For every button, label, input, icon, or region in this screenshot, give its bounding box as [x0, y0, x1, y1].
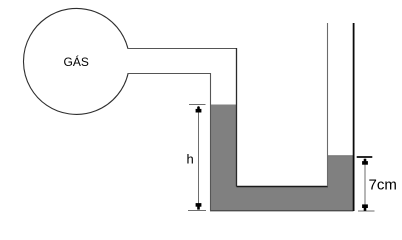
svg-text:7cm: 7cm: [369, 177, 397, 194]
svg-text:h: h: [187, 152, 194, 167]
svg-text:GÁS: GÁS: [64, 54, 89, 69]
